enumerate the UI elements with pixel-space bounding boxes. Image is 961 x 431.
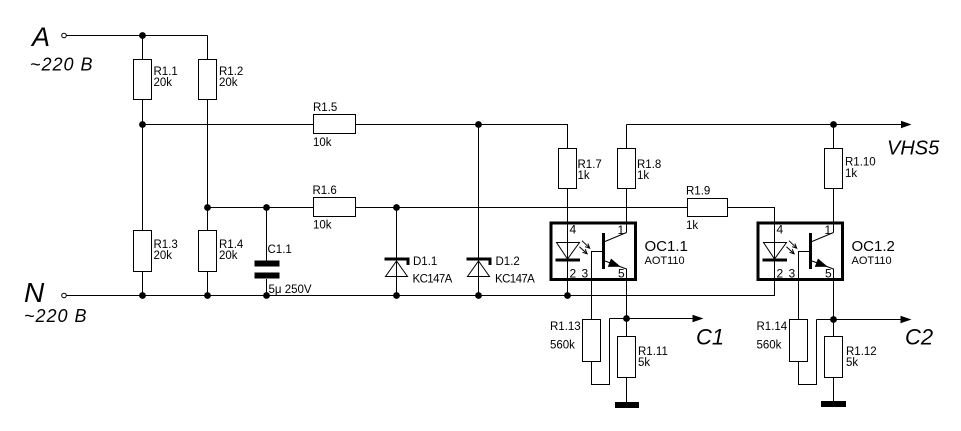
svg-text:~220 В: ~220 В xyxy=(30,55,94,75)
resistor R1.1 xyxy=(134,60,152,100)
wire bus to R1.10 xyxy=(833,125,835,149)
junction N/R1.3 xyxy=(139,292,146,299)
junction C1 node xyxy=(623,315,630,322)
OC1.1 emitter arrow xyxy=(608,259,621,267)
wire OC1.2 pin3 to R1.14 xyxy=(798,281,800,320)
svg-text:10k: 10k xyxy=(313,137,332,149)
wire R1.8 to OC1.1 pin1 xyxy=(626,189,628,233)
wire R1.4 bottom to N bus xyxy=(207,272,209,296)
svg-text:4: 4 xyxy=(570,223,577,237)
svg-text:2: 2 xyxy=(777,267,784,281)
svg-text:1: 1 xyxy=(825,223,832,237)
junction N/C1.1 xyxy=(263,292,270,299)
OC1.2 LED xyxy=(764,243,787,260)
svg-text:R1.9: R1.9 xyxy=(686,186,710,198)
junction R1.10 top xyxy=(830,121,837,128)
svg-text:D1.2: D1.2 xyxy=(496,256,520,268)
arrow C1 xyxy=(693,315,704,322)
wire OC1.1 pin3 to R1.13 xyxy=(591,281,593,320)
resistor R1.10 xyxy=(825,149,843,189)
node A terminal xyxy=(62,33,67,38)
wire C2 output xyxy=(817,319,903,321)
svg-text:20k: 20k xyxy=(154,77,173,89)
junction N/D1.2 xyxy=(475,292,482,299)
junction N/R1.4 xyxy=(204,292,211,299)
OC1.1 light arrow 2 xyxy=(579,247,587,254)
svg-text:10k: 10k xyxy=(313,220,332,232)
resistor R1.8 xyxy=(618,149,636,189)
junction D1.2 top xyxy=(475,121,482,128)
svg-text:AOT110: AOT110 xyxy=(645,255,685,267)
resistor R1.14 xyxy=(790,320,808,362)
OC1.1 collector lead xyxy=(605,233,627,242)
wire R1.1 bottom to mid bus xyxy=(142,100,144,230)
wire A to R1.1 xyxy=(142,36,144,60)
svg-text:5: 5 xyxy=(825,267,832,281)
OC1.2 emitter arrow xyxy=(815,259,828,267)
svg-text:3: 3 xyxy=(582,267,589,281)
svg-text:N: N xyxy=(24,277,45,308)
capacitor C1.1 xyxy=(266,208,268,261)
wire bus to R1.8 xyxy=(626,125,628,149)
resistor R1.13 xyxy=(583,320,601,362)
svg-text:20k: 20k xyxy=(219,250,238,262)
svg-text:C1: C1 xyxy=(696,325,724,350)
OC1.2 phototransistor base bar xyxy=(809,233,812,269)
svg-text:R1.13: R1.13 xyxy=(550,321,581,333)
svg-text:KC147A: KC147A xyxy=(413,274,453,286)
diode D1.1 xyxy=(396,208,398,296)
svg-text:VHS5: VHS5 xyxy=(887,138,940,160)
svg-text:R1.14: R1.14 xyxy=(757,321,788,333)
wire R1.9 to OC1.2 pin4 xyxy=(728,208,775,262)
svg-text:R1.10: R1.10 xyxy=(845,157,876,169)
wire R1.2 bottom to low bus xyxy=(207,100,209,230)
svg-text:OC1.2: OC1.2 xyxy=(852,238,895,255)
OC1.2 base lead xyxy=(799,252,810,282)
svg-text:560k: 560k xyxy=(757,340,782,352)
OC1.1 base lead xyxy=(592,252,603,282)
OC1.2 LED cathode wire xyxy=(774,262,776,282)
svg-text:C2: C2 xyxy=(905,325,933,350)
wire R1.13 bottom U-route xyxy=(592,319,610,385)
wire OC1.2 pin5 to C2 node xyxy=(833,281,835,337)
svg-text:C1.1: C1.1 xyxy=(268,244,292,256)
OC1.2 light arrow 1 xyxy=(789,241,797,249)
ground bar 2 xyxy=(821,401,846,407)
resistor R1.5 xyxy=(314,115,356,134)
svg-text:A: A xyxy=(30,22,50,52)
svg-text:5: 5 xyxy=(618,267,625,281)
wire R1.14 bottom U-route xyxy=(799,320,817,385)
svg-text:KC147A: KC147A xyxy=(495,274,535,286)
wire N bus xyxy=(67,281,775,296)
wire R1.3 bottom to N bus xyxy=(142,272,144,296)
junction low bus left xyxy=(204,204,211,211)
wire mid bus to R1.7 xyxy=(356,125,568,149)
junction N/D1.1 xyxy=(393,292,400,299)
svg-text:R1.6: R1.6 xyxy=(313,185,337,197)
wire low bus right segment xyxy=(356,207,687,209)
wire R1.10 to OC1.2 pin1 xyxy=(833,189,835,233)
resistor R1.4 xyxy=(199,231,217,272)
junction C2 node xyxy=(830,316,837,323)
ground bar 1 xyxy=(615,402,639,408)
wire R1.7 to OC1.1 pin4 xyxy=(567,189,569,262)
wire R1.11 to ground xyxy=(626,378,628,402)
wire A top bus xyxy=(67,35,208,37)
svg-text:D1.1: D1.1 xyxy=(413,256,437,268)
resistor R1.11 xyxy=(618,337,636,378)
resistor R1.3 xyxy=(134,231,152,272)
OC1.2 light arrow 2 xyxy=(786,247,794,254)
resistor R1.12 xyxy=(825,337,843,378)
junction N/OC1.1 pin2 xyxy=(564,292,571,299)
resistor R1.2 xyxy=(199,60,217,100)
wire low bus left segment xyxy=(208,207,314,209)
svg-text:1k: 1k xyxy=(578,170,590,182)
svg-text:5μ 250V: 5μ 250V xyxy=(269,284,312,296)
optocoupler U OC1.2 box xyxy=(758,223,843,280)
junction C1.1 top xyxy=(263,204,270,211)
diode D1.2 xyxy=(478,125,480,296)
svg-text:~220 В: ~220 В xyxy=(24,306,88,326)
OC1.2 emitter lead xyxy=(812,261,834,281)
svg-text:1: 1 xyxy=(618,223,625,237)
svg-text:OC1.1: OC1.1 xyxy=(645,238,688,255)
svg-text:5k: 5k xyxy=(846,357,858,369)
wire mid bus left segment xyxy=(143,124,314,126)
svg-text:5k: 5k xyxy=(638,357,650,369)
OC1.1 emitter lead xyxy=(605,261,627,281)
wire OC1.1 pin5 to C1 node xyxy=(626,281,628,337)
junction D1.1 top xyxy=(393,204,400,211)
OC1.1 LED cathode wire to N bus xyxy=(567,262,569,296)
svg-text:2: 2 xyxy=(570,267,577,281)
OC1.2 collector lead xyxy=(812,233,834,242)
svg-text:20k: 20k xyxy=(219,77,238,89)
OC1.1 light arrow 1 xyxy=(582,241,590,249)
svg-text:3: 3 xyxy=(789,267,796,281)
svg-text:1k: 1k xyxy=(845,168,857,180)
svg-text:4: 4 xyxy=(777,223,784,237)
svg-text:560k: 560k xyxy=(550,340,575,352)
resistor R1.9 xyxy=(688,199,728,217)
optocoupler U OC1.1 box xyxy=(551,223,636,280)
node N terminal xyxy=(62,293,67,298)
wire VHS5 bus xyxy=(627,124,904,126)
wire R1.12 to ground xyxy=(833,378,835,401)
resistor R1.7 xyxy=(559,149,577,189)
svg-text:20k: 20k xyxy=(154,250,173,262)
arrow VHS5 xyxy=(901,121,912,128)
resistor R1.6 xyxy=(314,198,356,217)
wire A to R1.2 xyxy=(207,36,209,60)
svg-text:1k: 1k xyxy=(637,170,649,182)
OC1.1 phototransistor base bar xyxy=(602,233,605,269)
svg-text:R1.5: R1.5 xyxy=(313,102,337,114)
OC1.1 LED xyxy=(557,243,580,260)
junction A/R1.1 xyxy=(139,32,146,39)
svg-text:AOT110: AOT110 xyxy=(852,255,892,267)
wire C1 output xyxy=(610,318,695,320)
arrow C2 xyxy=(901,316,912,323)
junction mid bus left xyxy=(139,121,146,128)
svg-text:1k: 1k xyxy=(686,220,698,232)
